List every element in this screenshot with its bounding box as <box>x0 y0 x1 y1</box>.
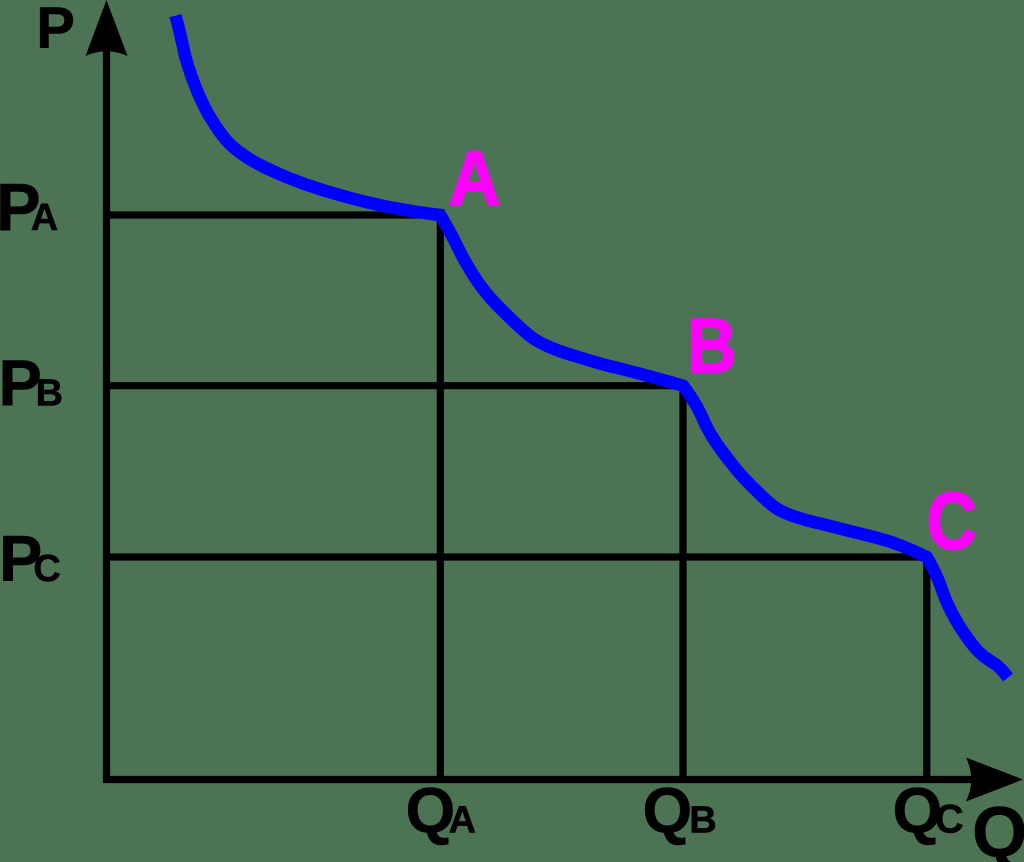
svg-text:PC: PC <box>0 522 61 595</box>
svg-text:C: C <box>927 476 977 566</box>
svg-text:PB: PB <box>0 347 63 420</box>
demand curve (blue, scalloped through A, B, C) <box>175 16 1008 678</box>
x-axis arrowhead <box>966 758 1023 802</box>
svg-text:B: B <box>687 303 737 389</box>
svg-text:QB: QB <box>643 775 717 847</box>
svg-text:Q: Q <box>972 794 1024 862</box>
svg-text:PA: PA <box>0 170 58 245</box>
step line PA-QA: horizontal at y=215 and vertical at x=440.3 <box>103 215 440 780</box>
svg-text:QC: QC <box>893 775 964 847</box>
step line PB-QB: horizontal at y=385.7 and vertical at x=683 <box>103 386 683 780</box>
svg-text:QA: QA <box>406 775 477 847</box>
svg-text:A: A <box>449 135 501 221</box>
y-axis arrowhead <box>86 0 128 56</box>
svg-text:P: P <box>36 0 75 61</box>
y-axis (P axis) shaft <box>103 30 110 780</box>
x-axis (Q axis) shaft <box>103 776 990 783</box>
step line PC-QC: horizontal at y=557 and vertical at x=926.8 <box>103 557 927 780</box>
